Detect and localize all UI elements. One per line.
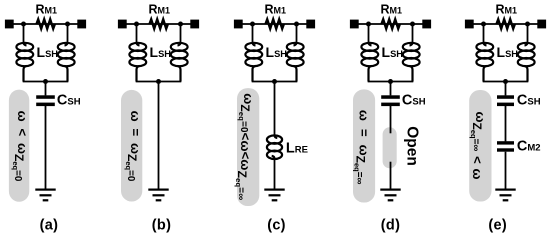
wire (node to C_SH, a) xyxy=(45,82,47,96)
node (right junction dot, b) xyxy=(178,22,183,27)
condition highlight pill (e) xyxy=(469,90,491,202)
resistor R_M1 label (e) xyxy=(496,2,518,16)
resistor R_M1 label (c) xyxy=(265,2,287,16)
inductor L_RE coil (c) xyxy=(267,135,282,159)
inductor L_SH left coil (d) xyxy=(361,42,378,82)
capacitor C_M2 (e) xyxy=(497,141,514,152)
wire (loop bottom horizontal, b) xyxy=(136,81,182,83)
wire (top horizontal between terminals, c) xyxy=(238,23,311,25)
ground symbol (c) xyxy=(264,189,284,202)
capacitor C_SH value label (a) xyxy=(57,92,81,108)
condition highlight pill (d) xyxy=(353,89,375,202)
node (loop bottom center junction, b) xyxy=(156,79,161,84)
inductor L_SH left coil (b) xyxy=(129,42,146,82)
condition text (d) xyxy=(353,110,372,185)
terminal (left square port, d) xyxy=(350,20,359,29)
node (left junction dot, d) xyxy=(366,22,371,27)
node (loop bottom center junction, a) xyxy=(43,79,48,84)
ground symbol (d) xyxy=(380,189,400,202)
open-circuit highlight pill (d) xyxy=(383,127,397,168)
wire (C_SH to C_M2, e) xyxy=(505,106,507,141)
node (loop bottom center junction, e) xyxy=(503,79,508,84)
caption (e) xyxy=(488,218,507,234)
terminal (right square port, a) xyxy=(77,20,86,29)
wire (left vertical stub to coil, c) xyxy=(252,24,254,44)
capacitor C_SH (a) xyxy=(36,95,55,106)
condition text (b) xyxy=(124,111,143,182)
svg-text:RM1: RM1 xyxy=(265,2,287,16)
terminal (left square port, e) xyxy=(465,20,474,29)
svg-text:(a): (a) xyxy=(40,218,59,234)
terminal (left square port, a) xyxy=(5,20,14,29)
wire (C_SH to open gap, d) xyxy=(390,106,392,133)
wire (C_M2 to ground, e) xyxy=(505,152,507,190)
caption (b) xyxy=(152,218,171,234)
wire (top horizontal between terminals, d) xyxy=(354,23,427,25)
wire (loop bottom horizontal, d) xyxy=(368,81,414,83)
wire (L_RE to ground, c) xyxy=(274,159,276,190)
inductor L_SH right coil (b) xyxy=(171,42,188,82)
wire (open gap to ground, d) xyxy=(390,162,392,190)
terminal (right square port, e) xyxy=(537,20,546,29)
capacitor C_M2 value label (e) xyxy=(517,138,541,154)
svg-text:RM1: RM1 xyxy=(496,2,518,16)
resistor R_M1 label (b) xyxy=(149,2,171,16)
wire (top horizontal between terminals, e) xyxy=(469,23,542,25)
caption (d) xyxy=(381,218,400,234)
terminal (right square port, b) xyxy=(190,20,199,29)
wire (node to L_RE, c) xyxy=(274,82,276,137)
wire (left vertical stub to coil, a) xyxy=(23,24,25,44)
ground symbol (b) xyxy=(148,189,168,202)
wire (node to C_SH, e) xyxy=(505,82,507,96)
wire (right vertical stub to coil, e) xyxy=(527,24,529,44)
svg-text:RM1: RM1 xyxy=(149,2,171,16)
resistor R_M1 label (d) xyxy=(381,2,403,16)
resistor R_M1 label (a) xyxy=(36,2,58,16)
wire (right vertical stub to coil, c) xyxy=(296,24,298,44)
inductor L_SH label (c) xyxy=(266,44,288,60)
wire (node to C_SH, d) xyxy=(390,82,392,96)
resistor R_M1 zigzag body (d) xyxy=(382,19,400,28)
node (loop bottom center junction, d) xyxy=(388,79,393,84)
capacitor C_SH value label (d) xyxy=(402,92,426,108)
inductor L_SH label (e) xyxy=(497,44,519,60)
wire (top horizontal between terminals, a) xyxy=(9,23,82,25)
resistor R_M1 zigzag body (e) xyxy=(497,19,515,28)
terminal (right square port, d) xyxy=(422,20,431,29)
svg-text:(d): (d) xyxy=(381,218,400,234)
condition text (c) xyxy=(234,93,256,200)
resistor R_M1 zigzag body (b) xyxy=(150,19,168,28)
inductor L_SH right coil (c) xyxy=(287,42,304,82)
ground symbol (e) xyxy=(495,189,515,202)
wire (loop bottom horizontal, a) xyxy=(23,81,69,83)
node (left junction dot, b) xyxy=(134,22,139,27)
condition highlight pill (b) xyxy=(121,90,142,202)
wire (left vertical stub to coil, d) xyxy=(368,24,370,44)
node (left junction dot, e) xyxy=(481,22,486,27)
inductor L_RE label (c) xyxy=(286,140,308,156)
wire (left vertical stub to coil, b) xyxy=(136,24,138,44)
inductor L_SH right coil (e) xyxy=(518,42,535,82)
inductor L_SH label (b) xyxy=(150,44,172,60)
svg-text:(c): (c) xyxy=(267,218,286,234)
inductor L_SH left coil (c) xyxy=(245,42,262,82)
wire (right vertical stub to coil, d) xyxy=(412,24,414,44)
wire (loop bottom horizontal, e) xyxy=(483,81,529,83)
wire (right vertical stub to coil, a) xyxy=(67,24,69,44)
node (right junction dot, a) xyxy=(65,22,70,27)
inductor L_SH label (d) xyxy=(382,44,404,60)
node (left junction dot, c) xyxy=(250,22,255,27)
wire (top horizontal between terminals, b) xyxy=(122,23,195,25)
ground symbol (a) xyxy=(35,189,55,202)
node (left junction dot, a) xyxy=(21,22,26,27)
terminal (left square port, b) xyxy=(118,20,127,29)
node (loop bottom center junction, c) xyxy=(272,79,277,84)
terminal (right square port, c) xyxy=(306,20,315,29)
wire (loop bottom horizontal, c) xyxy=(252,81,298,83)
inductor L_SH right coil (a) xyxy=(58,42,75,82)
condition text (a) xyxy=(11,111,30,182)
caption (a) xyxy=(40,218,59,234)
condition highlight pill (c) xyxy=(237,88,259,206)
node (right junction dot, e) xyxy=(525,22,530,27)
inductor L_SH label (a) xyxy=(37,44,59,60)
node (right junction dot, c) xyxy=(294,22,299,27)
terminal (left square port, c) xyxy=(234,20,243,29)
wire (right vertical stub to coil, b) xyxy=(180,24,182,44)
wire (left vertical stub to coil, e) xyxy=(483,24,485,44)
node (right junction dot, d) xyxy=(410,22,415,27)
inductor L_SH left coil (a) xyxy=(16,42,33,82)
inductor L_SH left coil (e) xyxy=(476,42,493,82)
svg-text:RM1: RM1 xyxy=(381,2,403,16)
capacitor C_SH (e) xyxy=(497,95,514,106)
resistor R_M1 zigzag body (a) xyxy=(37,19,55,28)
condition text (e) xyxy=(469,112,488,180)
svg-text:Open: Open xyxy=(403,126,420,166)
resistor R_M1 zigzag body (c) xyxy=(266,19,284,28)
caption (c) xyxy=(267,218,286,234)
svg-text:RM1: RM1 xyxy=(36,2,58,16)
capacitor C_SH value label (e) xyxy=(517,92,541,108)
svg-text:(b): (b) xyxy=(152,218,171,234)
capacitor C_SH (d) xyxy=(381,95,400,106)
wire (node to ground, b) xyxy=(158,82,160,190)
open label (d) xyxy=(403,126,420,166)
svg-text:(e): (e) xyxy=(488,218,507,234)
condition highlight pill (a) xyxy=(9,90,29,202)
wire (C_SH to ground, a) xyxy=(45,106,47,190)
inductor L_SH right coil (d) xyxy=(403,42,420,82)
